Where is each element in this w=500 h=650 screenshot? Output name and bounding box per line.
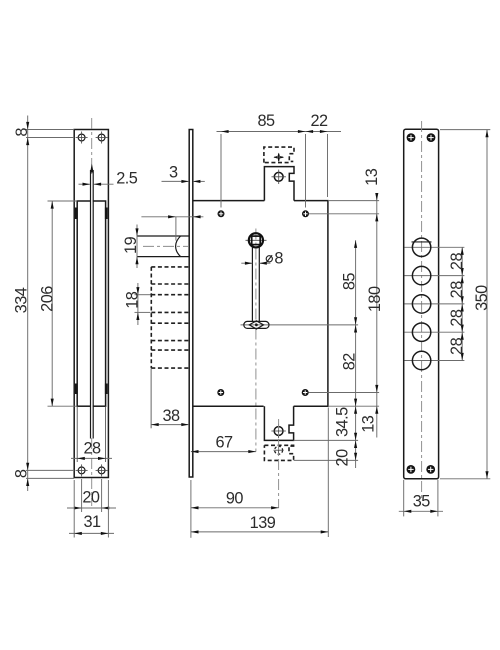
dimension 90 extension lines (190, 480, 192, 538)
rivet bottom-left (217, 389, 224, 396)
svg-text:180: 180 (366, 286, 384, 312)
svg-text:19: 19 (122, 236, 140, 254)
left view screw hole bottom-left (78, 467, 85, 474)
svg-text:28: 28 (83, 440, 101, 458)
right view circle 1 (412, 238, 430, 256)
dimension 67 line (191, 451, 256, 453)
bottom auxiliary bolt dashed (extended position) (264, 445, 293, 460)
svg-text:90: 90 (226, 489, 244, 507)
keyhole oval (244, 321, 269, 328)
svg-text:28: 28 (448, 309, 466, 327)
left view weld mark top-right (105, 208, 108, 220)
dimension 8 / 334 / 8 shared dimension line (27, 116, 29, 492)
dimension 31 extension lines (73, 480, 75, 538)
svg-text:350: 350 (473, 285, 491, 311)
svg-text:3: 3 (169, 164, 178, 182)
spindle vertical center line (255, 229, 257, 452)
svg-text:22: 22 (310, 112, 328, 130)
dimension 350 line (486, 130, 488, 479)
svg-text:67: 67 (215, 434, 233, 452)
dimension 85/22 top extension lines (220, 134, 222, 208)
svg-text:28: 28 (448, 253, 466, 271)
dimension 350 extension lines (440, 129, 490, 131)
dimension 3 faceplate thickness (162, 180, 189, 182)
top auxiliary bolt solid (264, 167, 294, 201)
dimension 139 extension line (327, 408, 329, 538)
top auxiliary bolt screw circle (274, 172, 283, 181)
bottom auxiliary center line (278, 419, 280, 508)
dimension 8 top-left extension lines (26, 129, 74, 131)
right view screw hole bottom-left (407, 465, 416, 474)
left view faceplate outline 31x350 (74, 130, 108, 478)
right view center line (421, 121, 423, 500)
right chain extension lines (328, 200, 379, 202)
svg-text:13: 13 (359, 415, 377, 433)
bottom auxiliary bolt solid (264, 406, 293, 440)
keyhole horizontal center line (241, 324, 359, 326)
dimension 18 extension lines (135, 294, 151, 296)
left view weld mark bottom-right (105, 384, 108, 395)
svg-text:28: 28 (448, 281, 466, 299)
spindle rod below (diameter 8) (251, 247, 253, 321)
latch bolt side lines (137, 235, 189, 237)
dimension 18 line (137, 283, 139, 325)
spindle square hole (249, 233, 263, 247)
dimension 35 line (399, 510, 443, 512)
right view screw hole bottom-right (426, 465, 435, 474)
spindle horizontal center line (246, 239, 267, 241)
right view circle 3 (412, 295, 430, 313)
left view screw hole top-left (78, 134, 85, 141)
unlabelled latch projection dimension (141, 216, 203, 218)
svg-text:31: 31 (83, 513, 101, 531)
left view screw hole bottom-right (98, 467, 105, 474)
right view circle 2 (412, 266, 430, 284)
svg-text:28: 28 (448, 337, 466, 355)
dimension 8 bottom extension lines (26, 469, 74, 471)
svg-text:139: 139 (250, 514, 276, 532)
middle view lock body outline (193, 201, 328, 407)
dimension 85/22 top line (217, 131, 342, 133)
svg-text:20: 20 (334, 449, 352, 467)
left view lock case (inner box 28x206) (77, 201, 105, 406)
dimension 20 line (67, 507, 116, 509)
dimension 20 hole spacing extension lines (81, 479, 83, 512)
svg-text:18: 18 (124, 291, 142, 309)
svg-text:8: 8 (13, 469, 31, 478)
rivet top-right (302, 210, 309, 217)
left view thin rod 2.5 with pointed tip (91, 174, 93, 436)
latch center line (143, 245, 188, 247)
hidden cylinder housing dashed lines (151, 266, 189, 268)
left view weld mark bottom-left (75, 384, 78, 395)
diameter symbol and text 8 (266, 256, 272, 262)
dimension 90 line (191, 507, 279, 509)
latch bolt head arc (176, 236, 181, 257)
svg-text:82: 82 (341, 353, 359, 371)
right view screw hole top-left (407, 133, 416, 142)
top auxiliary bolt dashed (extended position) (264, 147, 294, 163)
left view center line (91, 118, 93, 506)
right view circle 4 (412, 323, 430, 341)
dimension 35 extension lines (403, 480, 405, 517)
right view plate outline 35x350 (404, 129, 439, 479)
dimension 19 latch (136, 225, 138, 269)
dimension 38 line (151, 424, 189, 426)
svg-text:20: 20 (82, 489, 100, 507)
svg-text:34.5: 34.5 (334, 407, 352, 437)
dimension chain 13/180/13 line (376, 193, 378, 438)
svg-text:35: 35 (413, 493, 431, 511)
svg-text:334: 334 (13, 287, 31, 313)
dimension 206 line (51, 201, 53, 406)
left view weld mark top-left (75, 208, 78, 220)
svg-text:206: 206 (39, 286, 57, 312)
dimension 38 extension line (150, 369, 152, 429)
right view circle 5 (412, 351, 430, 369)
rivet bottom-right (302, 389, 309, 396)
svg-text:13: 13 (363, 168, 381, 186)
spindle axis chord on top circle (412, 241, 432, 243)
right view hole center lines (405, 246, 465, 248)
svg-text:85: 85 (341, 273, 359, 291)
dimension 28 case width line (71, 457, 112, 459)
rivet top-left (218, 210, 225, 217)
left view screw hole top-right (98, 134, 105, 141)
bottom auxiliary dashed screw circle (275, 446, 283, 454)
svg-text:38: 38 (162, 407, 180, 425)
movement cross symbol (278, 154, 280, 162)
dimension chain 28x4 line (461, 247, 463, 360)
svg-text:85: 85 (257, 112, 275, 130)
dimension 2.5 rod width (79, 183, 90, 185)
dimension 206 extension lines (48, 200, 78, 202)
dimension chain 85/82/34.5/20 line (355, 240, 357, 468)
right view screw hole top-right (427, 133, 436, 142)
svg-text:8: 8 (13, 128, 31, 137)
svg-text:2.5: 2.5 (116, 169, 138, 187)
middle view faceplate 3mm thick (189, 130, 193, 478)
dimension diameter-8 arrows (241, 262, 252, 264)
dimension 139 line (191, 531, 328, 533)
bottom auxiliary bolt screw circle (274, 427, 283, 436)
svg-text:8: 8 (274, 250, 283, 268)
dimension 31 line (69, 532, 114, 534)
